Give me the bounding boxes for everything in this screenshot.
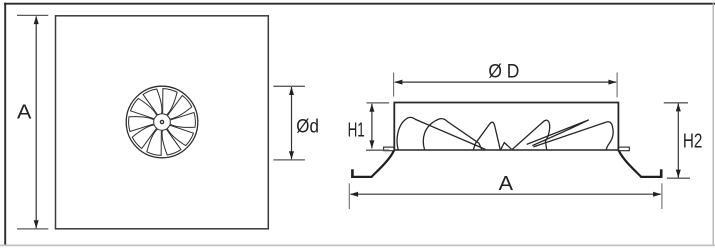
dimension OD: right arrowhead: [608, 80, 616, 85]
swirl blade 1: [163, 89, 178, 115]
dimension H1: bottom extension tick: [366, 149, 389, 151]
svg-text:Ø D: Ø D: [488, 62, 519, 83]
left flange lip: [384, 147, 395, 151]
dimension Od: up arrowhead: [289, 87, 294, 95]
section base line: [394, 149, 618, 151]
dimension A (bottom): left extension line: [348, 183, 350, 209]
svg-text:A: A: [17, 101, 32, 124]
dimension A (left): dimension line: [35, 17, 37, 229]
svg-text:A: A: [499, 172, 514, 195]
dimension A (bottom): left arrowhead: [350, 192, 358, 197]
svg-text:H1: H1: [348, 119, 365, 141]
svg-text:H2: H2: [683, 130, 703, 152]
swirl blade 9: [131, 98, 157, 118]
dimension A (bottom): dimension line: [350, 193, 660, 195]
section blade 1: [397, 117, 485, 149]
section blade 2: [423, 119, 481, 150]
section body rectangle: [394, 103, 618, 151]
dimension A (left): down arrowhead: [34, 220, 39, 228]
dimension A (left): bottom extension tick: [17, 228, 48, 230]
swirl blade 2: [167, 96, 191, 119]
swirl blade 4: [167, 125, 193, 145]
frame top border: [4, 3, 715, 5]
section blade 6: [533, 122, 613, 150]
dimension H2: down arrowhead: [676, 170, 681, 178]
swirl blade 3: [170, 113, 195, 128]
dimension H1: down arrowhead: [369, 140, 374, 148]
panel square (plan view): [56, 16, 269, 229]
dimension H1: up arrowhead: [369, 104, 374, 112]
swirl blade 7: [132, 125, 156, 148]
frame left border: [4, 3, 6, 246]
section blade 4 foot wedge: [501, 143, 512, 150]
swirl blade 5: [162, 129, 181, 155]
dimension OD: left extension line: [393, 73, 395, 97]
dimension H1: top extension tick: [367, 102, 390, 104]
dimension H1: dimension line: [371, 104, 373, 149]
right bell curve: [619, 151, 661, 177]
dimension Od: dimension line: [291, 87, 293, 159]
dimension OD: dimension line: [395, 81, 616, 83]
dimension A (bottom): right arrowhead: [653, 192, 661, 197]
frame right border: [712, 3, 714, 245]
swirl hub dot: [160, 120, 163, 123]
swirl blade 6: [147, 129, 162, 155]
dimension OD: right extension line: [616, 73, 618, 98]
dimension H2: top extension tick: [664, 102, 688, 104]
dimension A (left): top extension tick: [17, 14, 48, 16]
left bell end stub: [351, 169, 354, 178]
dimension H2: dimension line: [677, 103, 679, 177]
dimension H2: up arrowhead: [676, 103, 681, 111]
section blade 4: [512, 120, 549, 149]
frame bottom divider: [0, 244, 715, 246]
swirl face outer circle: [126, 86, 198, 158]
dimension Od: down arrowhead: [289, 151, 294, 159]
section blade 5: [527, 120, 589, 146]
section blade 3: [473, 122, 500, 149]
right bell end stub: [660, 169, 663, 178]
dimension Od: top extension tick: [273, 85, 305, 87]
swirl blade 10: [143, 89, 162, 115]
left bell curve: [353, 151, 394, 177]
dimension A (left): up arrowhead: [34, 16, 39, 24]
svg-text:Ød: Ød: [296, 116, 319, 137]
right flange lip: [618, 147, 629, 151]
dimension OD: left arrowhead: [394, 80, 402, 85]
dimension Od: bottom extension tick: [273, 159, 305, 161]
swirl blade 8: [129, 117, 154, 132]
dimension H2: bottom extension tick: [667, 177, 690, 179]
dimension A (bottom): right extension line: [661, 183, 663, 209]
